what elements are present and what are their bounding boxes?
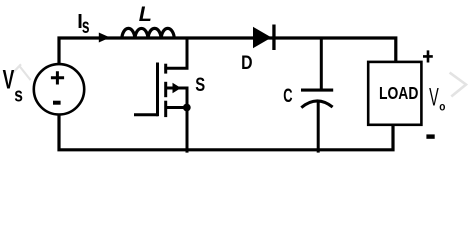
MOSFET body lead with corner down to source [165, 88, 188, 153]
MOSFET channel segment middle [164, 82, 167, 97]
capacitor C curved plate [301, 101, 332, 108]
MOSFET channel segment bottom [164, 101, 167, 117]
diode D triangle [253, 27, 272, 48]
wire bottom loop: source bottom lead, bottom wire, load bottom lead [59, 114, 393, 150]
plus sign at load [423, 50, 433, 62]
inductor L [122, 28, 175, 39]
transistor S (MOSFET) gate lead [134, 113, 158, 116]
svg-text:D: D [241, 51, 252, 73]
wire: capacitor top lead [320, 38, 323, 89]
svg-text:LOAD: LOAD [379, 84, 418, 103]
svg-text:o: o [439, 101, 445, 114]
diode D cathode bar [272, 25, 275, 51]
minus sign in source [53, 101, 61, 105]
svg-text:s: s [82, 14, 90, 38]
MOSFET source stub [165, 106, 188, 109]
LOAD box [368, 62, 421, 125]
svg-text:V: V [429, 85, 439, 112]
svg-text:L: L [139, 2, 152, 26]
MOSFET channel segment top [164, 64, 167, 74]
MOSFET gate plate [156, 63, 159, 117]
current arrow Is [99, 33, 110, 43]
svg-text:S: S [195, 73, 205, 96]
wire top loop: source top lead, top wire, load top lead [59, 38, 396, 65]
svg-text:V: V [3, 64, 15, 95]
right faint chevron [450, 73, 466, 97]
minus sign at load [426, 134, 434, 138]
junction dot at MOSFET source [183, 104, 191, 112]
voltage source VS circle [34, 64, 84, 114]
wire: drain lead from top wire to MOSFET [164, 38, 187, 68]
wire: capacitor bottom lead [317, 100, 320, 153]
svg-text:s: s [14, 84, 23, 106]
plus sign in source [51, 71, 64, 84]
MOSFET body arrow [173, 83, 182, 93]
svg-text:C: C [283, 84, 292, 107]
left faint chevron mark [13, 64, 30, 80]
capacitor C top plate [301, 89, 333, 92]
